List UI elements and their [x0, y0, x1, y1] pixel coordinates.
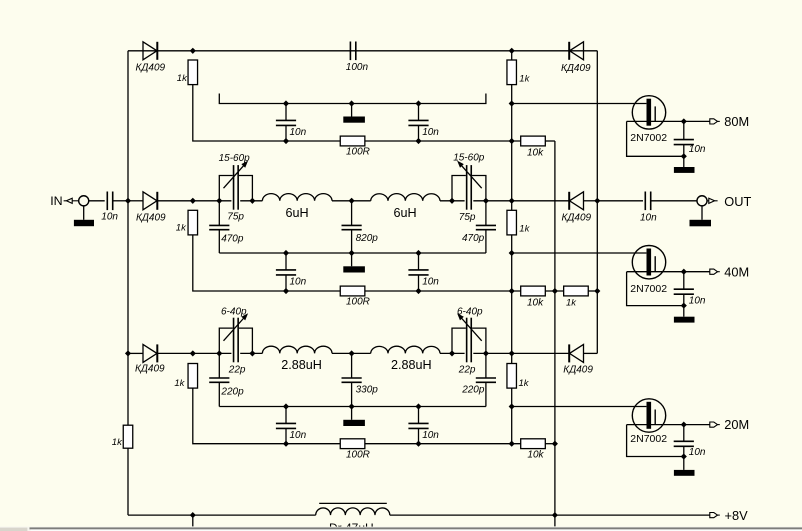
capacitor 10n band2 right: [418, 253, 420, 270]
node band2 lower/cap1: [284, 289, 289, 294]
node band3 gate: [509, 404, 514, 409]
node band2 lower/cap2: [416, 289, 421, 294]
wire IN to cap: [89, 200, 105, 202]
capacitor 10n (40M bypass): [683, 272, 685, 290]
node band2 row / column: [509, 198, 514, 203]
inductor choke Dr 47uH: [316, 508, 390, 515]
node band3 filter node A: [217, 351, 222, 356]
resistor 1k band3 right: [507, 364, 517, 389]
svg-text:22p: 22p: [458, 365, 476, 376]
svg-text:220p: 220p: [461, 385, 485, 396]
capacitor 10n band2 left: [285, 253, 287, 270]
svg-text:820p: 820p: [356, 233, 379, 244]
trimmer 15-60p band2 left arrow: [224, 162, 247, 188]
wire stub below +8V rail at x=193: [192, 515, 194, 526]
node band2 lower/middle bus: [552, 289, 557, 294]
node band2 rail/cap2: [416, 251, 421, 256]
svg-text:1k: 1k: [177, 73, 188, 84]
capacitor 10n (20M bypass): [683, 425, 685, 442]
capacitor 10n output: [644, 192, 646, 211]
svg-text:10n: 10n: [290, 277, 307, 288]
trimmer 6-40p band3 right arrow: [459, 315, 482, 341]
svg-text:КД409: КД409: [135, 364, 165, 375]
node band3 lower/middle bus: [552, 441, 557, 446]
inductor 2.88uH band3 left: [262, 346, 332, 353]
capacitor 220p band3 left plates: [209, 377, 229, 379]
wire band3 row node D to diode: [473, 352, 569, 354]
node band1 lower/cap2: [416, 139, 421, 144]
resistor 100R band2: [340, 286, 365, 296]
terminal +8V: [710, 513, 718, 518]
capacitor 10n band1 right plates: [408, 119, 428, 121]
svg-text:10k: 10k: [527, 298, 544, 309]
svg-text:330p: 330p: [356, 385, 379, 396]
capacitor 220p band3 right: [485, 353, 487, 378]
capacitor 10n band1 left plates: [276, 119, 296, 121]
svg-text:10n: 10n: [101, 212, 118, 223]
capacitor 100n: [349, 42, 351, 61]
svg-text:100R: 100R: [346, 449, 370, 460]
node band3 lower/cap1: [284, 441, 289, 446]
wire gate 40M: [512, 252, 647, 254]
svg-text:10k: 10k: [527, 148, 544, 159]
node band2 lower/OUT bus: [595, 289, 600, 294]
node band2 rail/cap1: [284, 251, 289, 256]
node band2 filter node B: [250, 198, 255, 203]
node band2 center: [349, 198, 354, 203]
wire middle bus x=555: [554, 141, 556, 526]
svg-text:10n: 10n: [422, 127, 439, 138]
capacitor 10n input: [106, 192, 108, 211]
node band3 row / left bus: [126, 351, 131, 356]
node band3 filter node C: [450, 351, 455, 356]
wire band2 row to inductor: [240, 200, 262, 202]
ground band3 rail: [343, 420, 365, 426]
node band2 row / left bus: [126, 198, 131, 203]
svg-text:10n: 10n: [640, 212, 657, 223]
node drain 80M: [681, 119, 686, 124]
input arrow: [64, 200, 67, 202]
wire band3 rail: [219, 406, 486, 408]
diode KD409 band3 left: [143, 344, 157, 362]
resistor 10k band2: [521, 286, 546, 296]
node band3 row / 1k left: [190, 351, 195, 356]
wire band3 row to inductor: [240, 352, 262, 354]
svg-text:1k: 1k: [176, 222, 187, 233]
svg-text:1k: 1k: [174, 378, 185, 389]
wire band3 row inductor to node C: [440, 352, 465, 354]
svg-text:470p: 470p: [462, 233, 485, 244]
svg-text:IN: IN: [50, 194, 62, 208]
node source/cap 80M: [681, 154, 686, 159]
trimmer 15-60p band2 right plates: [466, 165, 468, 210]
capacitor 330p plates: [342, 377, 362, 379]
wire source loop 20M: [627, 425, 684, 457]
transistor 2N7002 (80M switch): [632, 96, 665, 129]
resistor 1k bottom left: [123, 425, 133, 448]
svg-text:6-40p: 6-40p: [221, 307, 247, 318]
ground band2 rail: [343, 266, 365, 272]
svg-text:100R: 100R: [346, 147, 370, 158]
trimmer 6-40p band3 left loop: [219, 328, 232, 353]
trimmer 15-60p band2 left loop: [219, 176, 232, 201]
svg-text:КД409: КД409: [136, 62, 166, 73]
wire band2 row diode to OUT bus: [584, 200, 598, 202]
wire cap to OUT connector: [651, 200, 697, 202]
capacitor 820p: [351, 201, 353, 226]
wire band1 lower row: [365, 140, 521, 142]
capacitor 10n band1 left: [285, 104, 287, 121]
node band1 lower/cap1: [284, 139, 289, 144]
node band2 rail/ground: [349, 251, 354, 256]
wire band1 shield row: [219, 94, 486, 104]
svg-text:15-60p: 15-60p: [219, 153, 251, 164]
inductor 6uH band2 right: [371, 194, 440, 201]
wire band3 row diode to OUT bus corner: [584, 352, 598, 354]
wire source loop 80M: [627, 121, 684, 156]
resistor 1k band2 right: [507, 210, 517, 235]
svg-text:75p: 75p: [459, 212, 476, 223]
svg-text:1k: 1k: [566, 298, 577, 309]
node +8V / x193 stub: [190, 513, 195, 518]
wire band1 left 1k to lower row: [193, 85, 341, 141]
capacitor 10n (80M bypass): [683, 121, 685, 139]
wire band2 inductors middle: [332, 200, 371, 202]
svg-text:2.88uH: 2.88uH: [391, 358, 432, 372]
svg-text:6-40p: 6-40p: [457, 307, 483, 318]
svg-text:6uH: 6uH: [286, 206, 309, 220]
inductor 6uH band2 left: [262, 194, 332, 201]
svg-text:80M: 80M: [724, 114, 749, 129]
capacitor 10n band3 left plates: [276, 422, 296, 424]
svg-text:100n: 100n: [346, 62, 369, 73]
wire band2 lower row: [365, 290, 521, 292]
ground (20M switch): [683, 457, 685, 470]
capacitor 470p band2 right plates: [476, 224, 496, 226]
wire band3 lower row: [365, 443, 521, 445]
ground (40M switch): [683, 306, 685, 317]
capacitor 820p plates: [342, 224, 362, 226]
transistor 2N7002 (20M switch): [632, 399, 665, 432]
svg-text:КД409: КД409: [563, 364, 593, 375]
wire drain/source 80M: [627, 120, 710, 122]
wire drain/source 20M: [627, 424, 710, 426]
resistor 1k band2 left: [188, 210, 198, 235]
node band2 row / 1k left: [190, 198, 195, 203]
svg-text:470p: 470p: [221, 233, 244, 244]
node band2 filter node A: [217, 198, 222, 203]
node band1 gate: [509, 101, 514, 106]
svg-text:КД409: КД409: [562, 212, 592, 223]
capacitor 220p band3 right plates: [476, 377, 496, 379]
svg-text:10n: 10n: [290, 430, 307, 441]
wire band3 left 1k to lower row: [193, 388, 341, 444]
terminal 20M: [710, 422, 718, 427]
node source/cap 40M: [681, 303, 686, 308]
capacitor 10n band2 left plates: [276, 269, 296, 271]
node band3 rail/cap2: [416, 404, 421, 409]
node band3 lower/cap2: [416, 441, 421, 446]
ground at input: [83, 206, 85, 220]
output arrow: [707, 200, 709, 202]
wire gate 80M: [512, 103, 647, 105]
svg-text:+8V: +8V: [725, 508, 749, 523]
wire source loop 40M: [627, 272, 684, 306]
svg-text:10n: 10n: [290, 127, 307, 138]
wire band3 inductors middle: [332, 352, 371, 354]
svg-text:2N7002: 2N7002: [630, 132, 667, 144]
wire band2 row node D to diode: [473, 200, 569, 202]
svg-text:1k: 1k: [519, 224, 530, 235]
trimmer 6-40p band3 left arrow: [224, 315, 247, 341]
wire OUT bus x=596: [596, 51, 598, 354]
node band2 filter node C: [450, 198, 455, 203]
diode KD409 band2 left: [143, 192, 157, 210]
diode KD409 band3 right: [570, 344, 584, 362]
svg-text:10k: 10k: [527, 450, 544, 461]
terminal 40M: [710, 269, 718, 274]
input connector circle: [79, 196, 89, 206]
wire band1 top rail: [128, 50, 597, 52]
resistor 10k band1: [521, 136, 546, 146]
svg-text:10n: 10n: [689, 296, 706, 307]
trimmer 15-60p band2 left plates: [233, 165, 235, 210]
bottom window edge strip: [0, 527, 802, 531]
svg-text:75p: 75p: [227, 211, 244, 222]
node band1 shield/cap2: [416, 101, 421, 106]
node band2 gate: [509, 251, 514, 256]
svg-text:220p: 220p: [220, 387, 244, 398]
svg-text:10n: 10n: [689, 447, 706, 458]
svg-text:2.88uH: 2.88uH: [281, 358, 322, 372]
node band3 filter node D: [483, 351, 488, 356]
trimmer 6-40p band3 right plates: [466, 318, 468, 363]
resistor 1k band2 horizontal: [564, 286, 589, 296]
svg-text:20M: 20M: [724, 417, 749, 432]
wire band2 row inductor to node C: [440, 200, 465, 202]
capacitor 10n band3 right: [418, 407, 420, 424]
resistor 1k band3 left: [188, 364, 198, 389]
resistor 1k band1 left: [188, 60, 198, 85]
svg-text:40M: 40M: [724, 264, 749, 279]
wire band3 row: diode to filter: [157, 352, 231, 354]
wire OUT bus to cap: [597, 200, 643, 202]
node band3 center: [349, 351, 354, 356]
node band2 lower/column: [509, 289, 514, 294]
trimmer 6-40p band3 left plates: [233, 318, 235, 363]
svg-text:КД409: КД409: [136, 212, 166, 223]
svg-text:15-60p: 15-60p: [453, 152, 485, 163]
node drain 20M: [681, 422, 686, 427]
node band1 lower/column: [509, 139, 514, 144]
wire +8V rail: [128, 514, 316, 516]
trimmer 15-60p band2 right arrow: [459, 162, 482, 188]
wire drain/source 40M: [627, 271, 710, 273]
svg-text:10n: 10n: [422, 277, 439, 288]
svg-text:1k: 1k: [519, 74, 530, 85]
node band1 rail / column: [509, 48, 514, 53]
node band2 row / OUT bus: [595, 198, 600, 203]
svg-text:10n: 10n: [422, 430, 439, 441]
node band3 lower/column: [509, 441, 514, 446]
transistor 2N7002 (40M switch): [632, 246, 665, 279]
node band1 shield/cap1: [284, 101, 289, 106]
capacitor 330p: [351, 353, 353, 378]
output connector circle: [697, 196, 707, 206]
capacitor 10n band1 right: [418, 104, 420, 121]
resistor 1k band1 right: [507, 60, 517, 85]
diode KD409 band1 left: [143, 42, 157, 60]
node band1 rail / 1k: [190, 48, 195, 53]
ground band1 shield: [343, 117, 365, 123]
wire band3 row: bus to diode: [128, 352, 143, 354]
svg-text:OUT: OUT: [724, 194, 751, 209]
capacitor 470p band2 right: [485, 201, 487, 226]
node source/cap 20M: [681, 454, 686, 459]
trimmer 6-40p band3 right loop: [452, 328, 466, 353]
inductor 2.88uH band3 right: [371, 346, 440, 353]
wire gate 20M: [512, 406, 647, 408]
svg-text:22p: 22p: [228, 365, 246, 376]
svg-text:2N7002: 2N7002: [630, 283, 667, 295]
wire right column (1k/10k column): [511, 51, 513, 444]
terminal 80M: [710, 119, 718, 124]
trimmer 15-60p band2 right loop: [452, 176, 466, 201]
capacitor 470p band2 left plates: [209, 224, 229, 226]
resistor 100R band1: [340, 136, 365, 146]
wire band2 left 1k to lower row: [193, 235, 341, 291]
svg-text:1k: 1k: [519, 378, 530, 389]
wire cap to bus: [113, 200, 128, 202]
wire left bus: [127, 51, 129, 515]
svg-text:2N7002: 2N7002: [630, 433, 667, 445]
svg-text:КД409: КД409: [561, 63, 591, 74]
svg-text:6uH: 6uH: [394, 206, 417, 220]
capacitor 220p band3 left: [218, 353, 220, 378]
node band3 rail/ground: [349, 404, 354, 409]
ground (80M switch): [683, 156, 685, 167]
node band2 filter node D: [483, 198, 488, 203]
wire band2 row: bus to diode: [128, 200, 143, 202]
capacitor 10n band2 right plates: [408, 269, 428, 271]
svg-text:10n: 10n: [689, 144, 706, 155]
diode KD409 band1 right: [570, 42, 584, 60]
node drain 40M: [681, 269, 686, 274]
node band3 row / column: [509, 351, 514, 356]
capacitor 470p band2 left: [218, 201, 220, 226]
wire band2 row: diode to filter: [157, 200, 231, 202]
svg-text:1k: 1k: [112, 437, 123, 448]
resistor 10k band3: [521, 439, 546, 449]
diode KD409 band2 right: [570, 192, 584, 210]
node band3 rail/cap1: [284, 404, 289, 409]
node band3 filter node B: [250, 351, 255, 356]
wire band2 rail: [219, 252, 486, 254]
ground at output: [701, 206, 703, 220]
node band1 shield/ground: [349, 101, 354, 106]
svg-text:100R: 100R: [346, 297, 370, 308]
capacitor 10n band3 left: [285, 407, 287, 424]
capacitor 10n band3 right plates: [408, 422, 428, 424]
resistor 100R band3: [340, 439, 365, 449]
node +8V / middle bus: [552, 513, 557, 518]
